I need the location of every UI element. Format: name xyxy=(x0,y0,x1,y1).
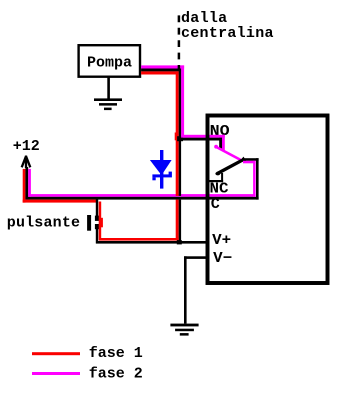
arrow up at +12 xyxy=(22,156,31,169)
wire vertical black pompa corner down to crossover gap xyxy=(179,69,181,196)
wire +12 vertical red xyxy=(23,169,26,203)
pulsante red overlay xyxy=(99,202,102,241)
ground under Pompa xyxy=(107,77,110,99)
legend fase 2 xyxy=(32,372,80,375)
wire C magenta overlay (fase 2) xyxy=(28,194,255,197)
wire V+ red overlay xyxy=(99,238,179,241)
dashed line from centralina xyxy=(178,15,181,70)
svg-text:fase 1: fase 1 xyxy=(89,345,143,362)
wire vertical red (fase1) down to crossover gap xyxy=(176,71,179,195)
wire pompa to node A : magenta/black/red bundle xyxy=(141,65,184,68)
diode D1 (blue) xyxy=(160,150,163,189)
node A junction dot (red under black) xyxy=(175,133,178,141)
relay box U1 xyxy=(208,116,328,284)
svg-text:V−: V− xyxy=(213,250,232,267)
svg-text:Pompa: Pompa xyxy=(87,55,132,72)
relay box U1 border repaint xyxy=(208,116,328,284)
wire V- to ground xyxy=(184,256,207,259)
wire C (black) from +12 corner to relay inner right xyxy=(25,197,258,200)
relay inner right black path (tip to C) xyxy=(242,158,259,161)
svg-text:fase 2: fase 2 xyxy=(89,365,143,382)
svg-text:V+: V+ xyxy=(212,232,231,249)
legend fase 1 xyxy=(32,352,80,355)
wire V+ (black) pulsante to relay xyxy=(96,241,207,244)
relay armature black xyxy=(217,160,242,173)
wire red horizontal to pulsante xyxy=(23,200,97,203)
Pompa box xyxy=(79,45,140,76)
svg-text:pulsante: pulsante xyxy=(7,215,80,232)
wire +12 vertical black xyxy=(25,167,28,200)
svg-text:+12: +12 xyxy=(13,138,40,155)
wire vertical magenta (fase2) pompa corner down to node A xyxy=(181,65,184,137)
wire vertical black resumes below crossover to V+ xyxy=(179,200,181,244)
wire +12 vertical magenta xyxy=(28,169,31,197)
pulsante button S1 xyxy=(96,199,98,219)
relay inner right magenta overlay xyxy=(243,161,256,164)
NC pin wire xyxy=(221,173,223,182)
wire magenta overlay to NO pin xyxy=(181,135,225,138)
ground bottom xyxy=(170,324,198,327)
node B junction dot on V+ xyxy=(177,240,182,244)
relay contact: magenta flash diagonal xyxy=(214,145,218,149)
wire node A to NO pin (black) xyxy=(180,138,223,141)
svg-text:centralina: centralina xyxy=(181,25,274,42)
wire vertical red resumes below crossover down to node B turn xyxy=(176,200,179,241)
